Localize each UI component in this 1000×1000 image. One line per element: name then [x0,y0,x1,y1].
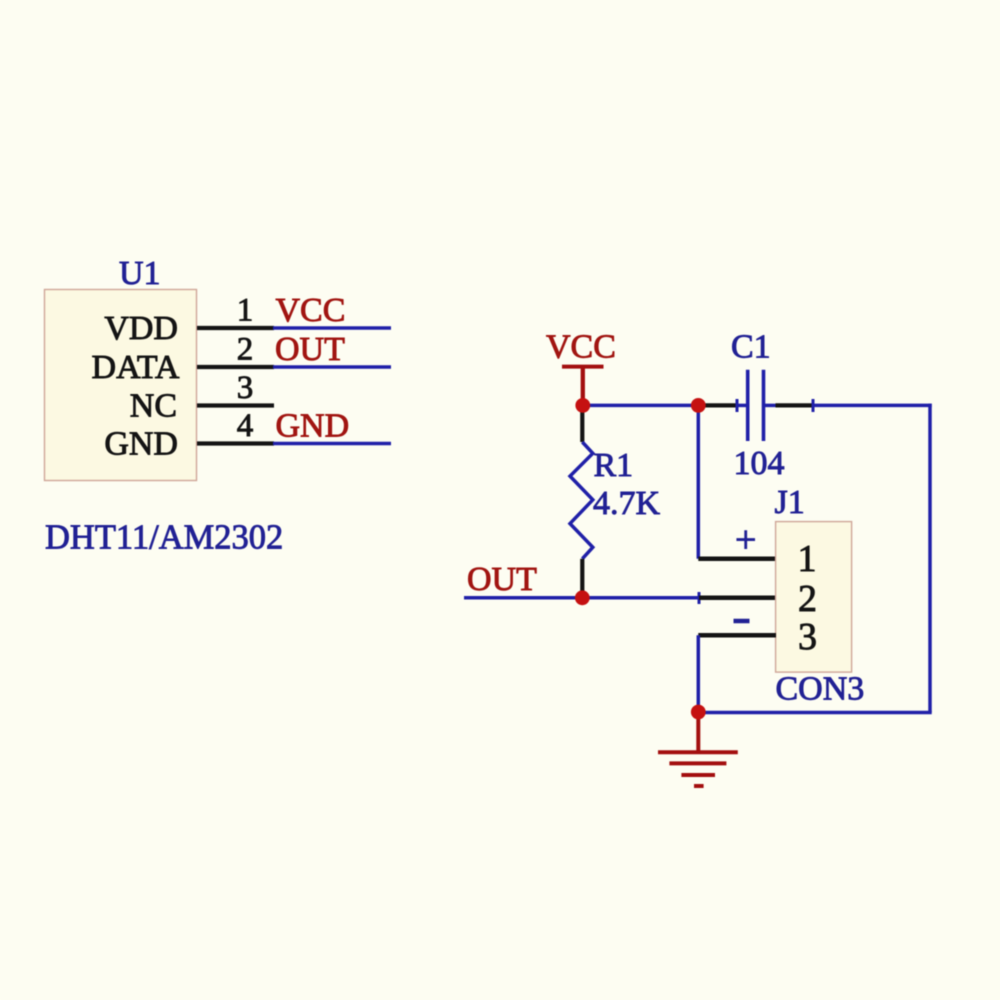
connector J1 body [776,522,852,673]
svg-text:DATA: DATA [92,349,180,386]
U1 pin 1 stub [197,326,274,330]
svg-text:GND: GND [104,426,178,463]
wire net GND from pin 4 [273,442,391,446]
ground symbol bar 2 [669,761,726,765]
capacitor C1 right stub [764,404,776,408]
capacitor C1 left pin tick [736,399,739,412]
J1 pin 3 lead [698,633,776,638]
svg-text:VDD: VDD [104,310,178,347]
svg-text:1: 1 [237,293,254,329]
resistor R1 top lead [580,405,584,442]
node C junction dot (OUT / R1 bottom) [575,590,590,605]
U1 pin 3 stub [197,403,274,407]
wire J1 pin 3 down to ground rail [697,635,701,712]
svg-text:+: + [735,519,756,561]
IC U1 body [45,290,197,481]
svg-text:J1: J1 [775,484,805,521]
svg-text:CON3: CON3 [776,671,865,708]
capacitor C1 right pin tick [812,399,815,412]
svg-text:OUT: OUT [275,331,345,368]
J1 pin 2 lead [699,596,776,601]
capacitor C1 left plate [746,370,750,441]
wire C1 to right rail [813,404,932,408]
U1 pin 4 stub [197,441,274,445]
svg-text:4: 4 [237,408,254,444]
svg-text:DHT11/AM2302: DHT11/AM2302 [45,519,283,557]
svg-text:U1: U1 [119,255,161,292]
svg-text:NC: NC [130,388,177,425]
svg-text:GND: GND [276,408,350,445]
ground symbol stem [696,712,700,752]
svg-text:104: 104 [734,445,785,482]
node B junction dot [691,398,706,413]
power symbol VCC bar [562,365,604,369]
U1 pin 2 stub [197,365,274,369]
node A junction dot (VCC rail) [575,398,590,413]
capacitor C1 left stub [737,404,748,408]
svg-text:OUT: OUT [467,561,537,598]
ground symbol bar 1 [658,750,738,754]
power symbol VCC stem [581,367,585,406]
resistor R1 bottom lead [580,559,584,598]
capacitor C1 right plate [762,370,766,441]
capacitor C1 left lead [698,403,737,407]
ground symbol bar 4 [694,784,704,788]
wire right rail vertical [928,404,932,713]
svg-text:2: 2 [798,578,817,620]
J1 pin 2 pin-end tick [698,592,701,604]
svg-text:C1: C1 [731,329,771,366]
J1 pin 1 lead [698,557,776,562]
svg-text:R1: R1 [594,447,634,484]
wire net VCC from pin 1 [273,326,391,330]
svg-text:3: 3 [237,370,254,406]
ground symbol bar 3 [681,773,715,777]
wire OUT horizontal [464,596,699,600]
svg-text:3: 3 [798,616,817,658]
svg-text:1: 1 [798,538,817,580]
resistor R1 zigzag body [570,442,593,559]
svg-text:2: 2 [237,332,254,368]
wire node B down to J1 pin 1 [697,405,701,558]
wire ground rail D to right rail [698,711,931,715]
svg-text:VCC: VCC [276,292,346,329]
wire VCC rail A to B [583,404,699,408]
wire net OUT from pin 2 [273,365,391,369]
svg-text:4.7K: 4.7K [593,485,661,522]
svg-text:VCC: VCC [546,329,616,366]
capacitor C1 right lead [776,403,814,407]
node D junction dot (ground) [691,705,706,720]
minus polarity mark [734,619,750,624]
